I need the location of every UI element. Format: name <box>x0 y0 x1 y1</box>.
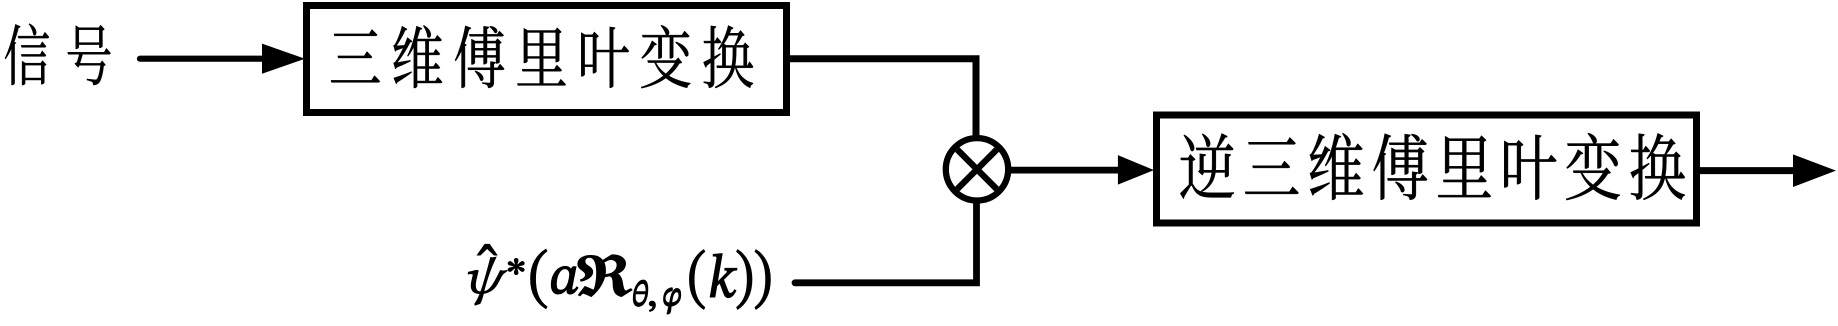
arrowhead into box1 <box>262 44 305 74</box>
box U2: 逆三维傅里叶变换 (inverse 3-D Fourier transform) <box>1157 115 1697 223</box>
box U1: 三维傅里叶变换 (3-D Fourier transform) <box>307 6 787 113</box>
multiplier node: circle with X (multiplication junction) <box>946 138 1008 200</box>
node: input signal label 信号 <box>5 24 111 85</box>
arrowhead into box2 <box>1118 155 1154 185</box>
wire: box1 output to multiplier (right then down) <box>786 59 976 140</box>
wire: output arrow line <box>1700 167 1797 174</box>
formula label: psi-hat*(a R_theta,phi (k)) <box>468 244 770 313</box>
label of box U1 <box>331 25 753 88</box>
wire: input arrow line <box>140 56 266 62</box>
label of box U2 <box>1180 133 1685 200</box>
arrowhead: final output <box>1793 154 1836 187</box>
wire: formula to multiplier (right then up) <box>795 200 977 283</box>
wire: multiplier to box2 <box>1010 167 1123 174</box>
